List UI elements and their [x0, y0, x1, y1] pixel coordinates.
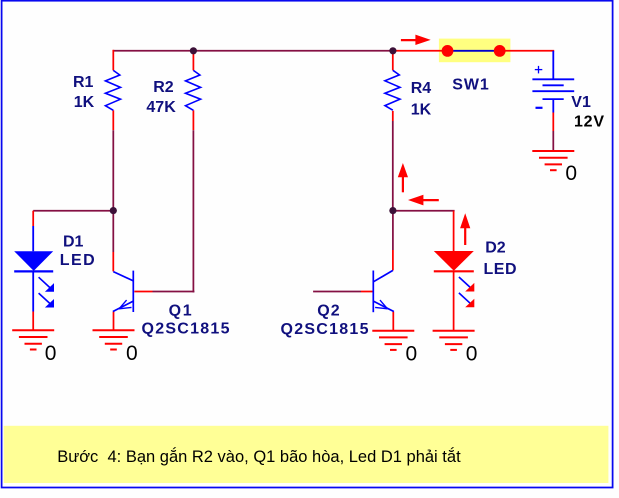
wire: Q1 base stub [134, 291, 152, 293]
wire: D1 anode stub [32, 211, 34, 226]
svg-text:R1: R1 [73, 74, 94, 91]
battery V1 [532, 66, 574, 108]
wire: Q2 base stub [361, 291, 373, 293]
wire: R2 down to Q1 base [192, 130, 194, 292]
current arrow up (R4) [398, 163, 408, 192]
svg-text:Bước 4: Bạn gắn R2 vào, Q1 bã: Bước 4: Bạn gắn R2 vào, Q1 bão hòa, Led … [57, 447, 461, 466]
svg-text:1K: 1K [411, 102, 432, 119]
svg-text:D1: D1 [63, 233, 84, 250]
svg-text:0: 0 [406, 343, 418, 366]
svg-text:0: 0 [45, 342, 57, 365]
wire: node B down [392, 211, 394, 250]
wire: R2 top stub [192, 51, 194, 71]
wire: SW1 right pin to battery corner [505, 50, 555, 52]
svg-text:V1: V1 [571, 94, 591, 111]
svg-text:Q1: Q1 [169, 303, 192, 320]
highlight box around SW1 [439, 39, 511, 63]
svg-text:R2: R2 [153, 79, 174, 96]
transistor Q1 [113, 271, 133, 312]
wire: Q1 emitter stub [113, 312, 115, 331]
junction dot rail R4 [389, 47, 396, 54]
wire: R4 bottom stub [392, 111, 394, 121]
wire: D2 drop [453, 211, 455, 252]
wire: D1 cathode stub [32, 312, 34, 331]
wire: R4 top stub [392, 51, 394, 71]
svg-text:Q2: Q2 [317, 303, 340, 320]
resistor R1 [105, 70, 120, 110]
current arrow right (top) [401, 35, 431, 45]
svg-text:LED: LED [60, 252, 95, 269]
svg-text:12V: 12V [574, 113, 604, 130]
wire: battery top pin [552, 51, 554, 80]
ground (Q2) [372, 331, 414, 350]
resistor R4 [385, 70, 400, 110]
svg-text:D2: D2 [485, 240, 506, 257]
svg-text:LED: LED [484, 261, 517, 278]
wire: R1 down to node A [112, 130, 114, 210]
junction node A [110, 207, 117, 214]
svg-text:0: 0 [565, 162, 577, 185]
svg-text:47K: 47K [146, 99, 176, 116]
wire: top rail [113, 50, 395, 52]
wire: R1 top stub [112, 50, 114, 71]
ground (D1) [12, 330, 54, 349]
wire: node A to D1 [33, 210, 113, 212]
transistor Q2 [373, 270, 394, 312]
wire: battery bottom pin [552, 99, 554, 112]
junction dot rail R2 [190, 47, 197, 54]
svg-text:1K: 1K [74, 94, 95, 111]
ground (D2) [433, 331, 475, 350]
svg-text:0: 0 [126, 342, 138, 365]
LED D2 [434, 251, 475, 307]
svg-text:0: 0 [466, 343, 478, 366]
ground (V1) [532, 151, 574, 170]
wire: Q2 collector stub [392, 250, 394, 270]
wire: rail to SW1 left pin [395, 50, 443, 52]
junction node B [389, 207, 396, 214]
LED D1 [14, 226, 54, 312]
current arrow left (node B) [408, 195, 439, 206]
wire: Q1 base horizontal [153, 291, 195, 293]
wire: R2 bottom stub [192, 110, 194, 130]
svg-text:Q2SC1815: Q2SC1815 [142, 320, 230, 337]
wire: R4 down to node B [392, 121, 394, 211]
svg-text:R4: R4 [411, 80, 432, 97]
wire: battery to ground maroon [552, 131, 554, 151]
current arrow up (D2) [460, 213, 470, 245]
wire: Q2 emitter stub [392, 312, 394, 331]
switch SW1 [442, 45, 506, 57]
resistor R2 [186, 70, 201, 110]
svg-text:Q2SC1815: Q2SC1815 [281, 321, 369, 338]
ground (Q1) [93, 330, 135, 349]
svg-text:SW1: SW1 [452, 76, 489, 93]
wire: node A down [112, 211, 114, 253]
wire: battery to ground red [552, 113, 554, 132]
wire: D2 cathode stub [453, 271, 455, 330]
wire: node B to D2 [393, 210, 455, 212]
wire: Q1 collector stub [112, 252, 114, 271]
wire: R1 bottom stub [112, 110, 114, 130]
caption bar background [4, 426, 609, 483]
wire: Q2 base horizontal [313, 291, 361, 293]
